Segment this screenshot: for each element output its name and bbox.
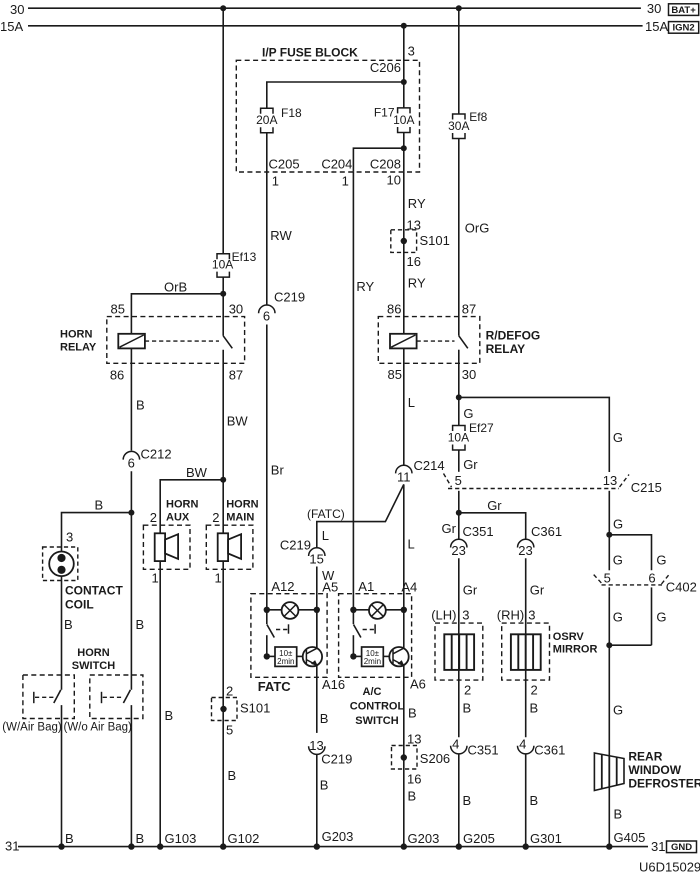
- svg-text:Ef8: Ef8: [469, 110, 487, 124]
- I/P fuse block box: [236, 60, 419, 172]
- svg-text:OrG: OrG: [465, 221, 490, 236]
- FATC switch: [267, 610, 289, 657]
- mirror LH heater element: [444, 634, 474, 670]
- svg-text:2: 2: [226, 684, 233, 699]
- wire colI relay30 to Ef27: [458, 350, 460, 426]
- svg-text:A12: A12: [271, 579, 294, 594]
- svg-text:2min: 2min: [277, 657, 294, 666]
- wire colD relay 87 to BW junction: [222, 350, 224, 534]
- svg-text:RY: RY: [356, 279, 374, 294]
- junction rail/colH: [401, 843, 407, 849]
- A/C box: [339, 594, 412, 678]
- wire colD Ef13 to OrB junction: [222, 277, 224, 336]
- svg-text:(FATC): (FATC): [307, 507, 345, 521]
- svg-text:S206: S206: [420, 751, 450, 766]
- svg-text:23: 23: [451, 543, 465, 558]
- svg-text:15: 15: [309, 551, 323, 566]
- fuse Ef13 10A: [212, 250, 257, 277]
- FATC junction left: [264, 607, 270, 613]
- svg-text:31: 31: [5, 839, 19, 854]
- wire colI C215 to Gr junction: [458, 491, 460, 539]
- wire G row horizontal: [459, 397, 610, 472]
- r/defog relay switch blade: [459, 336, 468, 349]
- svg-text:G301: G301: [530, 831, 562, 846]
- junction rail15A/colH: [401, 23, 407, 29]
- svg-text:2: 2: [464, 682, 471, 697]
- splice S206 box: [392, 746, 418, 770]
- svg-text:5: 5: [226, 723, 233, 738]
- rear window defroster element: [594, 753, 624, 791]
- wire BW row horizontal: [160, 480, 223, 534]
- svg-text:Gr: Gr: [463, 457, 478, 472]
- connector C219 pin 6 (dome): [259, 305, 275, 313]
- svg-text:(W/o Air Bag): (W/o Air Bag): [64, 721, 133, 733]
- A/C lamp: [369, 602, 386, 619]
- FATC junction right: [314, 607, 320, 613]
- connector C351 pin 4 (bowl): [451, 737, 499, 758]
- wire colE F18 to C219: [266, 133, 268, 305]
- svg-text:A6: A6: [410, 677, 426, 692]
- wire colC horn aux to G103: [159, 561, 161, 847]
- svg-text:A/C: A/C: [363, 686, 382, 698]
- svg-text:C205: C205: [269, 156, 300, 171]
- svg-text:B: B: [136, 398, 145, 413]
- svg-text:Gr: Gr: [463, 582, 478, 597]
- horn main box: [206, 525, 253, 569]
- wire colJ C361 to mirror RH: [525, 558, 527, 737]
- wire C402 top horizontal: [609, 535, 651, 571]
- wire C206 row horizontal: [267, 82, 404, 108]
- power symbol IGN2: [669, 22, 699, 34]
- svg-text:C219: C219: [274, 290, 305, 305]
- svg-text:6: 6: [648, 571, 655, 586]
- wire colB C212 to horn switch: [130, 471, 132, 690]
- wire colE C219 to FATC A12: [266, 325, 268, 610]
- svg-text:RELAY: RELAY: [486, 342, 526, 356]
- FATC timer junction: [264, 653, 270, 659]
- splice S206 junction: [401, 754, 407, 760]
- svg-text:B: B: [228, 768, 237, 783]
- svg-text:11: 11: [397, 469, 411, 484]
- svg-text:10: 10: [387, 173, 401, 188]
- svg-text:G103: G103: [165, 831, 197, 846]
- wire colL C402 to bottom loop: [651, 587, 653, 645]
- fuse Ef27 10A: [448, 421, 494, 450]
- svg-text:Ef27: Ef27: [469, 421, 494, 435]
- svg-text:1: 1: [152, 570, 159, 585]
- svg-text:1: 1: [215, 570, 222, 585]
- svg-text:85: 85: [111, 302, 125, 317]
- svg-text:1: 1: [272, 174, 279, 189]
- wire colI Ef27 to C215: [458, 450, 460, 472]
- horn relay actuator dash: [145, 340, 219, 342]
- svg-text:G: G: [656, 553, 666, 568]
- svg-text:SWITCH: SWITCH: [355, 715, 398, 727]
- svg-text:B: B: [408, 789, 417, 804]
- svg-text:G: G: [613, 610, 623, 625]
- svg-text:3: 3: [66, 529, 73, 544]
- wire colB coil to C212: [130, 348, 132, 450]
- svg-text:REAR: REAR: [628, 749, 662, 763]
- wire colD horn main to G102: [222, 561, 224, 847]
- splice S101 upper box: [391, 230, 417, 253]
- svg-text:5: 5: [604, 571, 611, 586]
- svg-text:20A: 20A: [256, 113, 277, 127]
- svg-text:3: 3: [408, 44, 415, 59]
- svg-text:B: B: [320, 711, 329, 726]
- svg-text:G203: G203: [322, 829, 354, 844]
- connector C214 (dome): [396, 465, 412, 473]
- wire colA coil to horn switch: [61, 576, 63, 690]
- horn switch contact w/o airbag: [102, 690, 131, 703]
- svg-text:85: 85: [388, 367, 402, 382]
- junction rail30/colI: [456, 5, 462, 11]
- svg-text:C361: C361: [534, 742, 565, 757]
- svg-text:B: B: [530, 701, 539, 716]
- wire colI C351/4 to G205: [458, 754, 460, 846]
- svg-text:COIL: COIL: [65, 598, 94, 612]
- svg-text:Br: Br: [271, 463, 285, 478]
- contact coil box: [43, 547, 78, 581]
- svg-text:Gr: Gr: [442, 521, 457, 536]
- junction BW/colD: [220, 477, 226, 483]
- wire colF FATC emitter to A16: [316, 666, 318, 733]
- connector C402 line: [594, 575, 697, 595]
- svg-text:G: G: [463, 406, 473, 421]
- svg-text:G405: G405: [614, 830, 646, 845]
- junction rail/colA: [58, 843, 64, 849]
- junction C402 bottom: [606, 642, 612, 648]
- svg-text:4: 4: [519, 737, 526, 752]
- horn relay box: [107, 317, 245, 364]
- svg-text:C219: C219: [280, 537, 311, 552]
- svg-text:RELAY: RELAY: [60, 342, 97, 354]
- svg-text:C208: C208: [370, 156, 401, 171]
- connector C219 pin 15 (dome): [309, 548, 325, 556]
- svg-text:GND: GND: [671, 842, 692, 853]
- svg-text:10A: 10A: [212, 258, 233, 272]
- svg-text:C351: C351: [463, 524, 494, 539]
- svg-text:23: 23: [518, 543, 532, 558]
- svg-text:SWITCH: SWITCH: [72, 660, 115, 672]
- svg-text:13: 13: [407, 732, 421, 747]
- wire colH A/C emitter to A6: [403, 666, 405, 847]
- svg-text:HORN: HORN: [226, 499, 258, 511]
- svg-text:30A: 30A: [448, 119, 469, 133]
- svg-text:C206: C206: [370, 60, 401, 75]
- svg-text:B: B: [136, 831, 145, 846]
- svg-text:Gr: Gr: [487, 498, 502, 513]
- svg-text:86: 86: [110, 368, 124, 383]
- A/C switch: [353, 610, 375, 657]
- svg-text:13: 13: [603, 473, 617, 488]
- svg-text:B: B: [136, 617, 145, 632]
- svg-text:CONTROL: CONTROL: [350, 700, 405, 712]
- fuse F17 10A: [374, 106, 415, 133]
- svg-text:L: L: [408, 395, 415, 410]
- svg-text:BW: BW: [227, 414, 249, 429]
- splice S101 upper junction: [401, 238, 407, 244]
- fuse Ef8 30A: [448, 8, 488, 138]
- svg-text:(RH): (RH): [497, 607, 524, 622]
- wire colH C214 split to A4: [403, 484, 405, 609]
- svg-text:MIRROR: MIRROR: [553, 644, 598, 656]
- svg-text:HORN: HORN: [60, 329, 92, 341]
- svg-text:MAIN: MAIN: [226, 512, 254, 524]
- svg-text:6: 6: [263, 309, 270, 324]
- A/C transistor Q: [383, 647, 408, 666]
- junction C208 row: [401, 145, 407, 151]
- wire colA switch to rail: [61, 705, 63, 847]
- svg-text:B: B: [530, 793, 539, 808]
- svg-text:4: 4: [452, 737, 459, 752]
- FATC lamp: [282, 602, 299, 619]
- svg-text:10A: 10A: [393, 113, 414, 127]
- svg-text:OrB: OrB: [164, 279, 187, 294]
- FATC transistor Q: [297, 647, 322, 666]
- horn aux box: [143, 525, 190, 569]
- svg-text:BAT+: BAT+: [671, 5, 696, 16]
- A/C junction left: [350, 607, 356, 613]
- horn switch box w/o airbag: [90, 675, 143, 719]
- connector C351 pin 23 (dome): [451, 539, 467, 547]
- svg-text:B: B: [64, 617, 73, 632]
- A/C junction right: [401, 607, 407, 613]
- horn aux speaker: [155, 533, 178, 561]
- wire colH rail15A to fuse block: [403, 26, 405, 108]
- svg-text:A5: A5: [322, 579, 338, 594]
- svg-text:86: 86: [387, 302, 401, 317]
- svg-text:G: G: [613, 430, 623, 445]
- svg-text:S101: S101: [420, 233, 450, 248]
- svg-text:2: 2: [212, 510, 219, 525]
- svg-text:Gr: Gr: [530, 582, 545, 597]
- horn relay switch blade: [223, 336, 232, 349]
- wire colI Ef8 to R/DEFOG 87: [458, 139, 460, 336]
- r/defog relay coil: [390, 334, 417, 349]
- svg-text:L: L: [322, 528, 329, 543]
- FATC timer box: [267, 647, 297, 666]
- svg-text:87: 87: [462, 302, 476, 317]
- svg-text:30: 30: [647, 1, 661, 16]
- svg-text:Ef13: Ef13: [232, 250, 257, 264]
- connector C219 pin 13 (bowl): [309, 738, 353, 767]
- r/defog relay box: [378, 317, 480, 364]
- r/defog relay actuator dash: [417, 340, 455, 342]
- svg-text:10A: 10A: [448, 431, 469, 445]
- svg-text:IGN2: IGN2: [673, 23, 695, 34]
- svg-text:(W/Air Bag): (W/Air Bag): [2, 721, 62, 733]
- wire colK C215 to C402: [608, 491, 610, 571]
- junction B row: [128, 510, 134, 516]
- junction rail/colF: [314, 843, 320, 849]
- svg-text:AUX: AUX: [166, 512, 190, 524]
- svg-text:BW: BW: [186, 465, 208, 480]
- svg-text:L: L: [408, 537, 415, 552]
- wire colG C204 to A/C A1: [352, 172, 354, 610]
- svg-text:U6D15029: U6D15029: [639, 860, 700, 874]
- connector C212 (dome): [123, 451, 139, 459]
- wire C402 bottom horizontal: [609, 644, 651, 646]
- svg-text:F17: F17: [374, 106, 395, 120]
- contact coil symbol: [49, 552, 74, 577]
- junction rail/colJ: [523, 843, 529, 849]
- A/C timer box: [353, 647, 383, 666]
- FATC lamp wire: [267, 609, 317, 611]
- svg-text:A1: A1: [358, 579, 374, 594]
- svg-text:15A: 15A: [645, 19, 668, 34]
- svg-text:G: G: [613, 517, 623, 532]
- svg-text:S101: S101: [240, 701, 270, 716]
- svg-text:30: 30: [229, 302, 243, 317]
- wire colH relay85 to C214: [403, 348, 405, 465]
- svg-text:16: 16: [407, 254, 421, 269]
- svg-text:CONTACT: CONTACT: [65, 584, 123, 598]
- svg-text:R/DEFOG: R/DEFOG: [486, 329, 541, 343]
- svg-text:HORN: HORN: [166, 499, 198, 511]
- svg-text:C219: C219: [321, 752, 352, 767]
- connector C361 pin 4 (bowl): [518, 737, 566, 758]
- junction rail30/colD: [220, 5, 226, 11]
- svg-text:G: G: [613, 553, 623, 568]
- svg-text:1: 1: [342, 174, 349, 189]
- wire rail 15A: [28, 25, 643, 27]
- svg-text:C204: C204: [321, 156, 352, 171]
- svg-text:2: 2: [150, 510, 157, 525]
- junction OrB/colD: [220, 291, 226, 297]
- svg-text:30: 30: [462, 367, 476, 382]
- svg-text:B: B: [614, 807, 623, 822]
- svg-text:6: 6: [128, 456, 135, 471]
- wire colF FATC collector: [316, 610, 318, 649]
- svg-text:2: 2: [531, 682, 538, 697]
- svg-text:B: B: [463, 793, 472, 808]
- svg-text:WINDOW: WINDOW: [628, 763, 681, 777]
- svg-text:31: 31: [651, 839, 665, 854]
- junction C206 row: [401, 79, 407, 85]
- wire ground rail 31: [18, 846, 648, 848]
- junction rail/colI: [456, 843, 462, 849]
- mirror RH heater element: [511, 634, 541, 670]
- svg-text:F18: F18: [281, 106, 302, 120]
- svg-text:A16: A16: [322, 677, 345, 692]
- wire colF C219/13 to G203: [316, 755, 318, 847]
- wire Gr row horizontal: [459, 513, 526, 539]
- svg-text:HORN: HORN: [77, 647, 109, 659]
- wire rail 30: [28, 7, 641, 9]
- svg-text:RY: RY: [408, 196, 426, 211]
- horn switch contact w/airbag: [34, 690, 61, 703]
- svg-text:C212: C212: [141, 446, 172, 461]
- svg-text:G203: G203: [408, 831, 440, 846]
- A/C timer junction: [350, 653, 356, 659]
- horn relay coil: [118, 334, 145, 349]
- svg-text:B: B: [463, 701, 472, 716]
- connector C215 line: [444, 474, 662, 496]
- svg-text:G205: G205: [463, 831, 495, 846]
- svg-text:3: 3: [462, 607, 469, 622]
- FATC box: [251, 594, 327, 678]
- junction G row: [456, 394, 462, 400]
- wire colH A/C collector: [403, 610, 405, 649]
- wire OrB row horizontal: [131, 294, 223, 334]
- junction rail/colK: [606, 843, 612, 849]
- splice S101 lower box: [212, 698, 238, 721]
- horn main speaker: [218, 533, 241, 561]
- wire C208 row horizontal to C204: [353, 148, 403, 172]
- svg-text:RY: RY: [408, 276, 426, 291]
- wire colH F17 to C208: [403, 133, 405, 172]
- fuse F18 20A: [256, 106, 302, 133]
- wire B row horizontal: [62, 513, 132, 552]
- svg-text:A4: A4: [401, 579, 417, 594]
- junction C402 top: [606, 532, 612, 538]
- svg-text:3: 3: [528, 607, 535, 622]
- svg-text:87: 87: [229, 368, 243, 383]
- svg-text:B: B: [165, 708, 174, 723]
- mirror LH box: [435, 623, 483, 680]
- svg-text:G: G: [613, 703, 623, 718]
- svg-text:RW: RW: [270, 228, 292, 243]
- wire colB switch to rail: [130, 705, 132, 847]
- wire colJ C361/4 to G301: [525, 754, 527, 846]
- svg-text:2min: 2min: [364, 657, 381, 666]
- svg-text:FATC: FATC: [258, 679, 292, 694]
- junction rail/colD: [220, 843, 226, 849]
- svg-text:C361: C361: [531, 524, 562, 539]
- svg-text:16: 16: [407, 772, 421, 787]
- junction Gr row: [456, 510, 462, 516]
- svg-text:C214: C214: [414, 458, 445, 473]
- junction rail/colC: [157, 843, 163, 849]
- svg-text:C215: C215: [631, 480, 662, 495]
- wire colH C208 to relay 86: [403, 172, 405, 334]
- power symbol BAT+: [669, 4, 699, 16]
- A/C lamp wire: [353, 609, 403, 611]
- junction rail/colB: [128, 843, 134, 849]
- svg-text:I/P FUSE BLOCK: I/P FUSE BLOCK: [262, 46, 358, 60]
- svg-text:B: B: [65, 831, 74, 846]
- wire colK C402 to defroster: [608, 587, 610, 846]
- splice S101 lower junction: [220, 706, 226, 712]
- svg-text:DEFROSTER: DEFROSTER: [628, 776, 700, 790]
- svg-text:C351: C351: [468, 742, 499, 757]
- mirror RH box: [502, 623, 550, 680]
- wire colF C219/15 to FATC A5: [316, 567, 318, 649]
- svg-text:5: 5: [455, 473, 462, 488]
- svg-text:G102: G102: [228, 831, 260, 846]
- svg-text:B: B: [408, 706, 417, 721]
- horn switch box w/airbag: [23, 675, 74, 719]
- ground symbol GND: [667, 841, 697, 853]
- wire colD rail30 to Ef13: [222, 8, 224, 254]
- wire colI C351 to mirror LH: [458, 558, 460, 737]
- svg-text:B: B: [320, 778, 329, 793]
- svg-text:G: G: [656, 610, 666, 625]
- svg-text:C402: C402: [666, 580, 697, 595]
- svg-text:(LH): (LH): [431, 607, 456, 622]
- svg-text:30: 30: [10, 2, 24, 17]
- svg-text:15A: 15A: [0, 19, 23, 34]
- wire L branch diagonal: [317, 484, 404, 547]
- svg-text:OSRV: OSRV: [553, 631, 585, 643]
- svg-text:B: B: [95, 498, 104, 513]
- connector C361 pin 23 (dome): [518, 539, 534, 547]
